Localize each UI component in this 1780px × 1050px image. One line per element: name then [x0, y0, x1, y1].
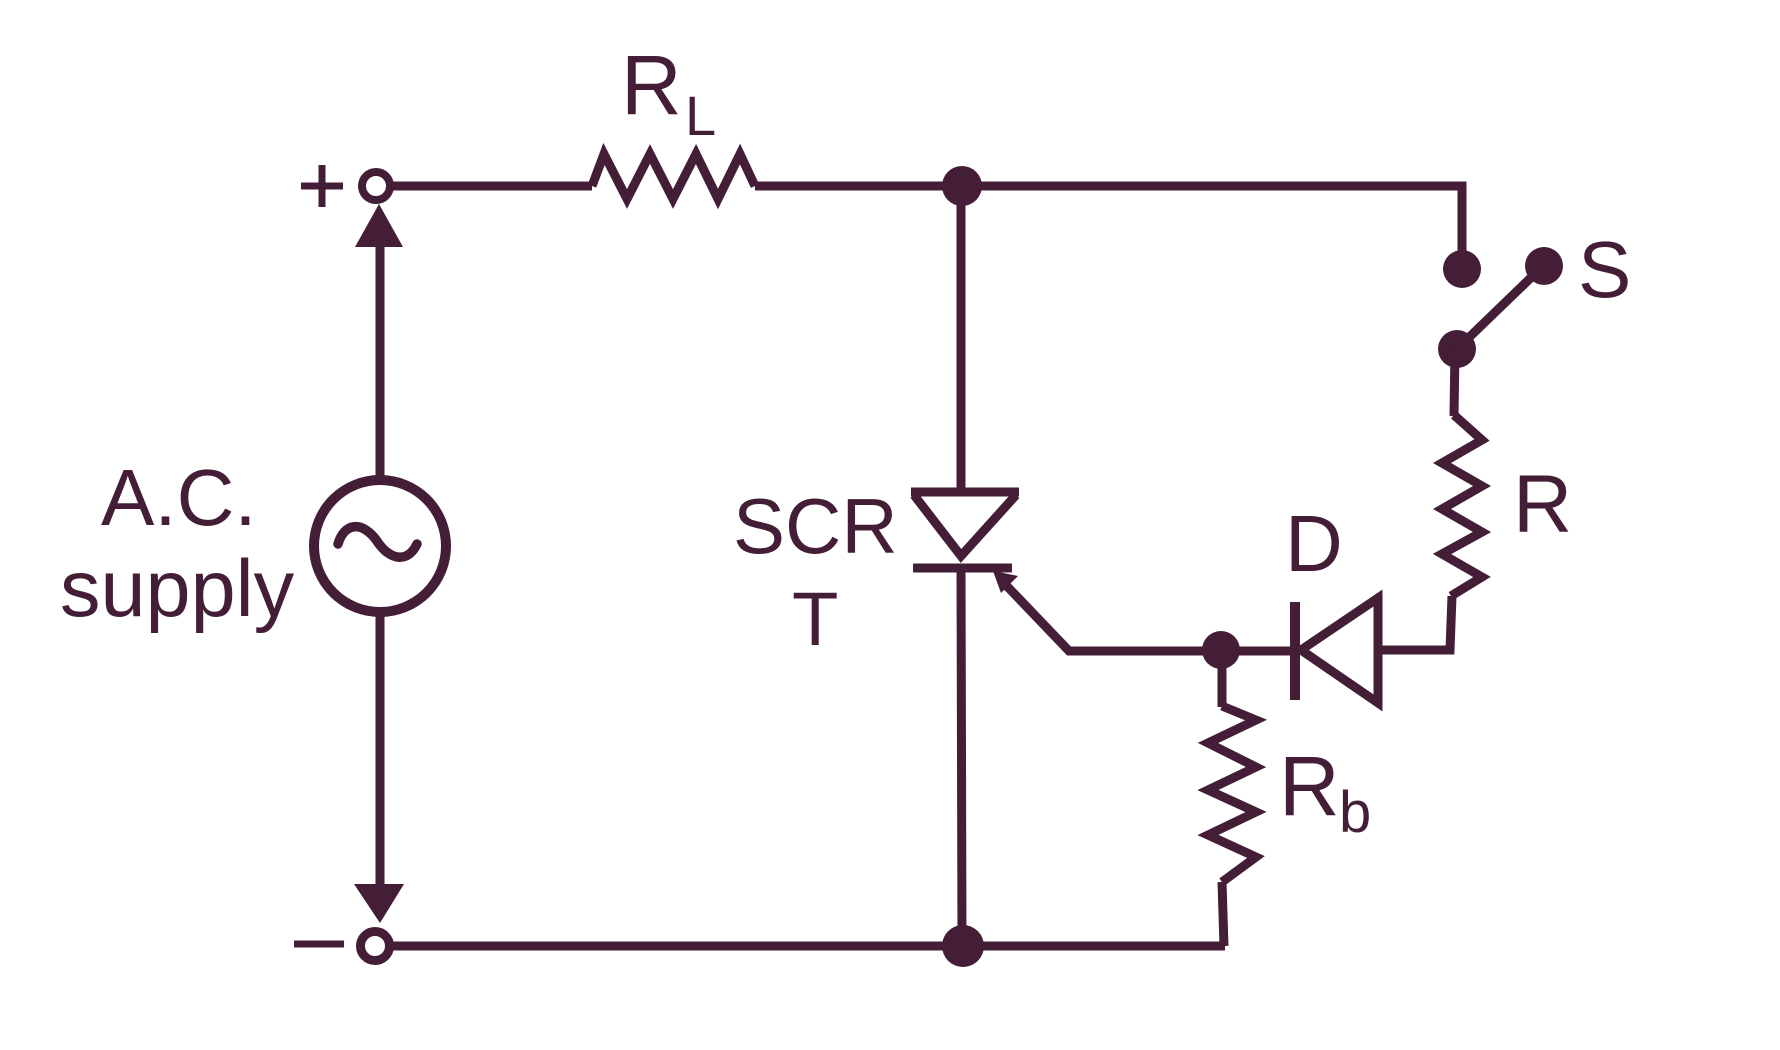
- svg-text:SCR: SCR: [733, 482, 898, 570]
- switch S bottom dot: [1438, 330, 1476, 368]
- wire SCR anode: [957, 186, 966, 492]
- gate arrowhead: [993, 571, 1018, 593]
- switch S blade: [1456, 265, 1544, 350]
- SCR thyristor T triangle sides: [914, 495, 1016, 556]
- wire diode to gate node: [1221, 647, 1295, 656]
- bottom wire: [390, 942, 1225, 951]
- resistor Rb: [1208, 706, 1256, 882]
- AC supply down arrow: [354, 884, 404, 923]
- svg-text:T: T: [792, 577, 838, 662]
- terminal minus (open circle): [361, 932, 390, 961]
- svg-text:R: R: [1279, 739, 1340, 833]
- node top junction: [942, 166, 982, 206]
- minus sign: [294, 941, 344, 948]
- wire switch to R: [1454, 350, 1455, 416]
- svg-text:D: D: [1285, 499, 1343, 588]
- resistor RL: [592, 154, 755, 199]
- svg-text:S: S: [1578, 225, 1631, 314]
- wire SCR cathode: [961, 568, 962, 946]
- svg-text:L: L: [685, 84, 716, 147]
- wire source to bottom arrow: [376, 612, 385, 886]
- wire top-left: [390, 182, 592, 191]
- AC supply up arrow: [355, 204, 403, 247]
- svg-text:supply: supply: [60, 544, 295, 634]
- resistor Rb bottom wire: [1222, 882, 1224, 946]
- SCR cathode bar: [913, 564, 1012, 573]
- svg-text:b: b: [1339, 780, 1371, 845]
- svg-text:R: R: [621, 38, 682, 132]
- AC sine symbol: [338, 527, 417, 558]
- node gate junction: [1202, 631, 1240, 669]
- switch S pole dot: [1443, 250, 1481, 288]
- svg-text:R: R: [1513, 459, 1572, 550]
- node bottom junction: [942, 925, 984, 967]
- wire gate: [1004, 583, 1221, 651]
- terminal plus (open circle): [362, 172, 390, 200]
- wire arrow to source: [376, 245, 385, 480]
- wire R to diode: [1378, 596, 1452, 650]
- SCR thyristor T triangle top bar: [911, 488, 1019, 497]
- switch S throw dot: [1525, 247, 1563, 285]
- resistor Rb top wire: [1218, 650, 1227, 707]
- AC source circle: [314, 480, 446, 612]
- svg-text:A.C.: A.C.: [101, 453, 257, 542]
- resistor R: [1442, 415, 1482, 596]
- wire top-right: [755, 186, 1462, 268]
- plus sign: [301, 165, 343, 207]
- diode D cathode bar: [1290, 602, 1300, 700]
- diode D triangle: [1301, 598, 1378, 703]
